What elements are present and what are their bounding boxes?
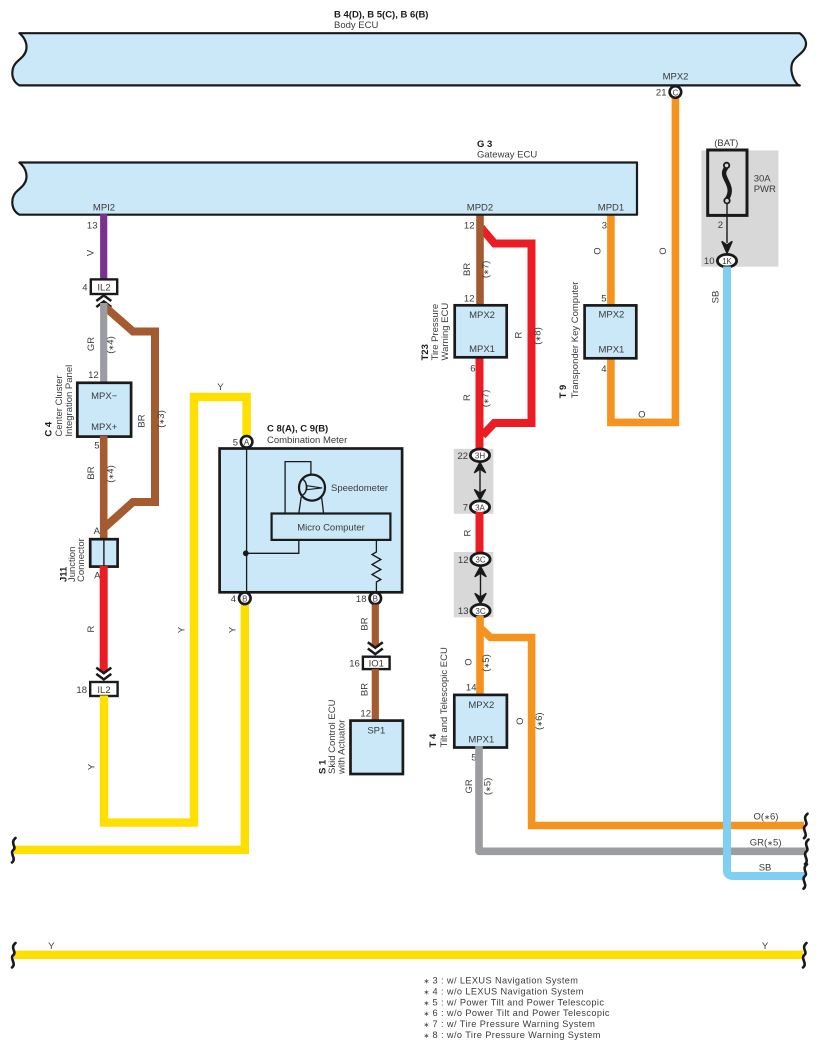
meter internal: speedometer leads [299, 497, 324, 514]
wire: red branch R (*8) from MPD2 brown to T23 lower red [481, 228, 532, 436]
svg-text:MPX1: MPX1 [469, 344, 495, 355]
wire: orange from Body ECU pin 21(C) down and left to T9 pin 4 [611, 97, 676, 422]
svg-text:(∗3): (∗3) [156, 410, 167, 428]
svg-text:∗ 8 : w/o Tire Pressure Warnin: ∗ 8 : w/o Tire Pressure Warning System [424, 1030, 601, 1040]
svg-text:22: 22 [457, 451, 468, 462]
break squiggle at right end of gray wire [805, 840, 809, 865]
svg-text:1K: 1K [722, 257, 732, 266]
svg-text:Transponder Key Computer: Transponder Key Computer [570, 282, 581, 399]
svg-text:Tilt and Telescopic ECU: Tilt and Telescopic ECU [439, 647, 450, 747]
svg-text:SB: SB [759, 863, 772, 874]
svg-text:O: O [658, 247, 669, 254]
svg-text:13: 13 [458, 606, 469, 617]
svg-text:Speedometer: Speedometer [331, 483, 388, 494]
component T23 Tire Pressure Warning ECU [420, 303, 507, 361]
break squiggle at right end of orange wire [804, 814, 808, 839]
svg-text:IL2: IL2 [97, 283, 110, 294]
svg-text:12: 12 [464, 221, 475, 232]
svg-text:Integration Panel: Integration Panel [64, 365, 75, 437]
svg-text:(BAT): (BAT) [714, 138, 738, 149]
meter internal: speedometer gauge [299, 475, 388, 501]
svg-text:Y: Y [227, 626, 238, 633]
power: gray panel for 30A PWR fuse [701, 150, 778, 266]
wire: brown BR (*7) from Gateway MPD2 pin 12 to T23 pin 12 [462, 214, 491, 306]
svg-text:16: 16 [349, 659, 360, 670]
connector IL2 (pin 18) [76, 682, 117, 696]
wire: red R between 3A and 3C [463, 512, 480, 554]
svg-text:A: A [94, 526, 101, 537]
gray panel behind connectors 3C/3C [454, 552, 494, 617]
component T4 Tilt and Telescopic ECU [428, 647, 507, 747]
svg-text:O: O [592, 247, 603, 254]
label: Gateway ECU title [477, 139, 537, 161]
svg-text:SP1: SP1 [367, 726, 385, 737]
fuse 30A PWR [708, 150, 776, 215]
svg-text:BR: BR [137, 414, 148, 427]
pin 21 connector C on Body ECU [656, 86, 681, 98]
svg-text:5: 5 [601, 294, 606, 305]
svg-text:(∗6): (∗6) [534, 712, 545, 730]
symbol: double arrow between 3H and 3A [475, 463, 486, 500]
svg-text:MPD2: MPD2 [467, 203, 493, 214]
svg-text:C 4: C 4 [44, 421, 55, 437]
break squiggle at right end of bottom yellow [803, 943, 807, 968]
break squiggle at right end of SB wire [804, 864, 808, 889]
svg-text:MPD1: MPD1 [598, 203, 624, 214]
svg-text:3C: 3C [475, 556, 485, 565]
wire: yellow Y bus across bottom [14, 941, 803, 955]
svg-text:2: 2 [718, 220, 723, 231]
svg-text:12: 12 [458, 555, 469, 566]
svg-text:GR: GR [464, 779, 475, 793]
svg-text:MPI2: MPI2 [93, 203, 115, 214]
svg-text:12: 12 [464, 294, 475, 305]
svg-text:O: O [638, 410, 645, 421]
svg-text:∗ 7 : w/ Tire Pressure Warning: ∗ 7 : w/ Tire Pressure Warning System [424, 1019, 596, 1029]
svg-text:PWR: PWR [754, 184, 776, 195]
svg-text:MPX2: MPX2 [468, 700, 494, 711]
connector IO1 (pin 16) [349, 657, 389, 670]
svg-text:4: 4 [82, 282, 87, 293]
svg-text:14: 14 [466, 683, 477, 694]
svg-text:V: V [86, 249, 97, 256]
svg-text:12: 12 [360, 709, 371, 720]
svg-text:∗ 5 : w/ Power Tilt and Power: ∗ 5 : w/ Power Tilt and Power Telescopic [424, 997, 605, 1007]
pin 4(B) of Combination Meter [231, 593, 251, 605]
svg-text:∗ 3 : w/ LEXUS Navigation Syst: ∗ 3 : w/ LEXUS Navigation System [424, 976, 579, 986]
svg-text:(∗8): (∗8) [533, 327, 544, 345]
symbol: double chevron up below IL2 [96, 295, 111, 307]
break squiggle at left end of yellow wire [12, 838, 16, 863]
svg-text:B: B [373, 595, 378, 604]
svg-text:Connector: Connector [76, 538, 87, 582]
svg-text:GR(∗5): GR(∗5) [750, 838, 782, 849]
wire: yellow Y from IL2 pin 18 loop up to Combination Meter pin 5(A) [87, 382, 247, 823]
connector 3A (pin 7) [463, 501, 490, 514]
component C4 Center Cluster Integration Panel [44, 365, 132, 437]
svg-text:C 8(A), C 9(B): C 8(A), C 9(B) [267, 424, 328, 435]
svg-text:B 4(D), B 5(C), B 6(B): B 4(D), B 5(C), B 6(B) [334, 10, 428, 21]
svg-text:R: R [514, 331, 525, 338]
svg-text:MPX1: MPX1 [598, 345, 624, 356]
svg-text:B: B [242, 595, 247, 604]
label: Body ECU title [334, 10, 428, 32]
gray panel behind connectors 3H/3A [454, 449, 494, 514]
connector 1K (pin 10) [704, 254, 737, 267]
svg-text:R: R [462, 394, 473, 401]
connector 3C (pin 12) [458, 553, 490, 566]
svg-text:Y: Y [762, 941, 769, 952]
svg-text:Body ECU: Body ECU [334, 20, 378, 31]
svg-text:∗ 6 : w/o Power Tilt and Power: ∗ 6 : w/o Power Tilt and Power Telescopi… [424, 1008, 610, 1018]
svg-text:5: 5 [233, 437, 238, 448]
svg-text:MPX−: MPX− [91, 391, 118, 402]
svg-text:MPX+: MPX+ [91, 422, 118, 433]
symbol: double chevron down above IL2 pin 18 [96, 668, 111, 680]
wire: brown BR from IO1 to S1 pin 12 [360, 669, 376, 721]
svg-text:13: 13 [87, 221, 98, 232]
svg-text:Gateway ECU: Gateway ECU [477, 150, 537, 161]
wire: orange O (*5) from connector 3C pin 13 to T4 pin 14 [464, 616, 493, 696]
svg-text:3A: 3A [475, 503, 485, 512]
wire: orange branch O (*6) from 3C down to bottom right break [482, 629, 804, 826]
svg-text:Warning ECU: Warning ECU [440, 303, 451, 361]
connector IL2 (pin 4) [82, 279, 117, 294]
svg-text:A: A [244, 438, 250, 447]
wire: red R (*7) from T23 pin 6 down to connector 3H [462, 356, 491, 452]
band: Body ECU [12, 33, 806, 85]
notes legend [424, 976, 610, 1041]
svg-text:T 9: T 9 [558, 385, 569, 399]
svg-text:BR: BR [86, 466, 97, 479]
svg-text:Y: Y [217, 382, 224, 393]
connector 3C (pin 13) [458, 604, 490, 617]
wire: gray GR (*5) from T4 pin 5 to bottom right break [464, 746, 806, 851]
wire: orange O from Gateway MPD1 pin 3 to T9 pin 5 [592, 214, 611, 306]
svg-text:(∗7): (∗7) [480, 390, 491, 408]
svg-text:GR: GR [86, 337, 97, 351]
svg-text:T 4: T 4 [428, 733, 439, 747]
svg-text:BR: BR [462, 263, 473, 276]
svg-text:O: O [464, 658, 475, 665]
svg-text:O(∗6): O(∗6) [754, 812, 779, 823]
svg-text:MPX2: MPX2 [469, 310, 495, 321]
svg-text:21: 21 [656, 88, 667, 99]
wire: yellow Y from Combination Meter pin 4(B) down-left to break [14, 605, 245, 850]
labels: Gateway ECU pin names [93, 203, 624, 214]
svg-text:30A: 30A [754, 174, 772, 185]
component J11 Junction Connector [58, 538, 117, 582]
svg-text:3C: 3C [475, 607, 485, 616]
svg-text:7: 7 [463, 503, 468, 514]
svg-text:(∗4): (∗4) [106, 465, 117, 483]
wire: red R from J11 pin A to connector IL2 pin 18 [86, 566, 104, 672]
svg-text:4: 4 [601, 364, 606, 375]
svg-text:IO1: IO1 [369, 659, 384, 670]
svg-text:Y: Y [48, 941, 55, 952]
svg-text:(∗4): (∗4) [106, 336, 117, 354]
wire: gray GR (*4) from IL2 to C4 pin 12 [86, 303, 116, 384]
svg-text:O: O [515, 718, 526, 725]
wire: light blue SB from 1K down to bottom right break [711, 267, 805, 877]
svg-text:C: C [673, 88, 679, 97]
symbol: double arrow between 3C and 3C [475, 567, 486, 604]
svg-text:R: R [86, 625, 97, 632]
pin 5(A) of Combination Meter [233, 436, 253, 448]
svg-text:5: 5 [94, 441, 99, 452]
svg-text:(∗5): (∗5) [483, 778, 494, 796]
svg-text:18: 18 [76, 685, 87, 696]
band: Gateway ECU [12, 163, 637, 215]
svg-text:4: 4 [231, 594, 236, 605]
wire: brown BR (*4) from C4 pin 5 to J11 [86, 436, 116, 540]
svg-text:3: 3 [602, 221, 607, 232]
svg-text:12: 12 [88, 370, 99, 381]
svg-text:18: 18 [356, 594, 367, 605]
pin 18(B) of Combination Meter [356, 593, 381, 605]
wire: brown branch BR (*3) loop around C4 [104, 306, 167, 528]
component Combination Meter C8(A) C9(B) [220, 424, 403, 593]
svg-text:(∗5): (∗5) [481, 654, 492, 672]
svg-text:(∗7): (∗7) [480, 261, 491, 279]
meter internal: resistor to pin 18(B) [372, 540, 381, 592]
svg-text:6: 6 [470, 364, 475, 375]
svg-text:3H: 3H [475, 452, 485, 461]
svg-text:MPX2: MPX2 [598, 310, 624, 321]
meter internal: loop wire from Micro Computer to speedometer [285, 462, 311, 514]
svg-text:G 3: G 3 [477, 139, 492, 150]
svg-text:Y: Y [177, 626, 188, 633]
svg-text:Combination Meter: Combination Meter [267, 435, 347, 446]
wire: purple V from Gateway MPI2 pin 13 to connector IL2 [86, 214, 104, 280]
component T9 Transponder Key Computer [558, 282, 636, 399]
svg-text:with Actuator: with Actuator [337, 720, 348, 775]
wire: thin lead from fuse pin 2 to connector 1K with arrow [718, 203, 732, 253]
svg-text:Y: Y [87, 763, 98, 770]
svg-text:R: R [463, 529, 474, 536]
svg-text:SB: SB [711, 291, 722, 304]
connector 3H (pin 22) [457, 449, 489, 462]
component S1 Skid Control ECU with Actuator [318, 699, 403, 775]
svg-text:∗ 4 : w/o LEXUS Navigation Sys: ∗ 4 : w/o LEXUS Navigation System [424, 986, 584, 996]
symbol: double chevron down above IO1 [368, 642, 383, 654]
svg-text:MPX1: MPX1 [468, 735, 494, 746]
svg-text:MPX2: MPX2 [663, 72, 689, 83]
svg-text:BR: BR [360, 683, 371, 696]
svg-text:IL2: IL2 [97, 685, 110, 696]
svg-text:BR: BR [360, 617, 371, 630]
break squiggle at left end of bottom yellow [12, 943, 16, 968]
label R of branch (*8) [514, 327, 544, 345]
meter internal: Micro Computer block [272, 514, 391, 540]
meter internal: vertical line from pin A to pin B with junction [243, 449, 299, 599]
svg-text:Micro Computer: Micro Computer [297, 523, 365, 534]
svg-text:10: 10 [704, 256, 715, 267]
wire: brown BR from meter pin 18(B) to IO1 [360, 605, 376, 648]
